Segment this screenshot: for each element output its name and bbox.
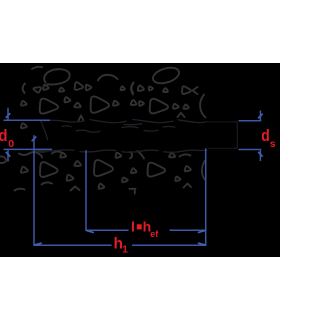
h1 dimension line left segment xyxy=(34,244,112,246)
aggregate smile dash xyxy=(42,182,53,184)
hole debris mark 3 xyxy=(36,151,46,153)
aggregate paren mid xyxy=(131,83,133,95)
aggregate edge blob xyxy=(1,156,7,163)
ds bottom arrow tick xyxy=(259,152,263,156)
aggregate small blob xyxy=(175,177,180,181)
aggregate face arc lower xyxy=(202,161,205,180)
svg-text:d: d xyxy=(261,127,270,145)
aggregate small pick xyxy=(74,103,80,108)
aggregate paren pair xyxy=(130,151,144,159)
aggregate small blob xyxy=(86,85,92,91)
hole top wall segment 3 xyxy=(124,123,142,126)
hole debris mark 6 xyxy=(163,125,175,128)
h1 tip extension line vertical xyxy=(33,135,35,246)
aggregate small pick xyxy=(169,153,175,157)
aggregate small blob xyxy=(139,101,144,106)
hole debris mark 5 xyxy=(144,129,158,132)
aggregate cup mark xyxy=(52,151,62,153)
aggregate D blob xyxy=(67,175,74,181)
aggregate big pick F xyxy=(147,163,165,177)
aggregate small blob xyxy=(98,184,104,189)
aggregate tiny blob xyxy=(149,87,153,91)
ds top extension line xyxy=(239,120,262,122)
aggregate smile arc xyxy=(98,75,118,81)
d0 bottom extension line xyxy=(4,148,53,150)
rebar end face xyxy=(236,122,238,149)
svg-text:1: 1 xyxy=(122,244,128,255)
ds bottom extension line xyxy=(239,149,262,151)
d0 top arrow shaft xyxy=(7,108,9,120)
aggregate dash top xyxy=(32,67,42,69)
black image area xyxy=(0,63,280,257)
ds bottom arrow shaft xyxy=(259,150,261,161)
aggregate big closed oval xyxy=(151,65,181,86)
aggregate rough marks at tip xyxy=(19,152,42,157)
d0 top extension line xyxy=(4,119,51,121)
h1 left arrow tick xyxy=(34,243,41,245)
hole top wall segment 5 xyxy=(178,120,207,123)
hef dimension line left segment xyxy=(86,229,129,231)
svg-text:0: 0 xyxy=(8,138,14,150)
rebar end corners xyxy=(234,122,238,149)
aggregate dash xyxy=(15,189,25,191)
aggregate small pick xyxy=(163,88,168,92)
svg-text:s: s xyxy=(270,138,276,150)
svg-text:d: d xyxy=(0,127,8,145)
hole tip slant mark xyxy=(42,125,48,140)
aggregate small blob xyxy=(113,101,119,106)
aggregate small pick xyxy=(185,166,191,171)
hole top wall segment 2 xyxy=(90,120,126,123)
aggregate paren xyxy=(131,83,133,93)
aggregate angle mark 2 xyxy=(184,184,192,188)
aggregate tiny blob xyxy=(59,88,64,92)
aggregate angle mark xyxy=(71,187,80,191)
aggregate small blob xyxy=(138,85,144,91)
aggregate face arc upper xyxy=(200,95,205,118)
hole debris mark 4 xyxy=(122,126,138,129)
aggregate small blob xyxy=(43,85,49,90)
aggregate small blob xyxy=(21,167,28,173)
aggregate big pick B xyxy=(91,96,109,112)
svg-text:l: l xyxy=(131,218,135,234)
ds top arrow tick xyxy=(259,114,263,118)
aggregate small pick xyxy=(60,153,66,158)
hef left arrow tick xyxy=(86,230,93,232)
rebar faint outline top edge xyxy=(208,121,237,123)
aggregate big pick E xyxy=(94,160,113,176)
aggregate small blob xyxy=(64,97,70,102)
aggregate big pick D xyxy=(40,162,58,177)
hole bottom wall segment 3 xyxy=(122,150,158,152)
aggregate chevron up 2 xyxy=(178,113,185,117)
surface extension line vertical xyxy=(205,148,207,246)
h1 tip arrow tick xyxy=(32,137,36,141)
aggregate small pick xyxy=(131,100,137,105)
aggregate small pick xyxy=(34,87,41,92)
aggregate chevron up 1 xyxy=(79,116,84,121)
hole top wall segment 4 xyxy=(133,119,173,122)
hole bottom wall segment 4 xyxy=(164,150,207,152)
hef dimension line right segment xyxy=(170,229,206,231)
hole tip small mark xyxy=(41,122,43,124)
hole bottom wall segment 1 xyxy=(38,150,74,151)
aggregate small blob xyxy=(122,178,128,183)
hole debris mark 1 xyxy=(62,126,71,127)
aggregate dash xyxy=(180,154,191,156)
hole debris mark 2 xyxy=(76,130,100,132)
d0 top arrow tick xyxy=(6,114,10,118)
h1 dimension line right segment xyxy=(132,244,206,246)
rebar faint outline bottom edge xyxy=(208,147,237,149)
h1 right arrow tick xyxy=(199,243,206,245)
aggregate D blob xyxy=(75,82,83,90)
aggregate small blob xyxy=(184,104,189,108)
aggregate big pick A xyxy=(40,99,58,114)
drill hole walls (rough) xyxy=(36,119,207,152)
aggregate big pick C xyxy=(150,99,168,114)
hef extension line vertical xyxy=(85,150,87,231)
aggregate small pick xyxy=(74,161,81,166)
hole bottom wall segment 2 xyxy=(80,150,116,152)
d0 bottom arrow tick xyxy=(6,152,10,156)
label equals block xyxy=(137,224,142,229)
aggregate small blob near tip xyxy=(21,123,27,128)
aggregate paren left xyxy=(23,84,25,94)
aggregate D blob xyxy=(182,86,191,94)
aggregate big open oval xyxy=(44,69,69,84)
aggregate tiny blob xyxy=(21,101,27,106)
aggregate chevron right xyxy=(193,87,198,94)
aggregate small blob xyxy=(116,153,122,158)
aggregate small blob xyxy=(121,86,125,90)
hef right arrow tick xyxy=(199,230,206,232)
d0 bottom arrow shaft xyxy=(7,150,9,161)
aggregate dash tick xyxy=(130,189,136,194)
hole top wall segment 1 xyxy=(45,120,84,122)
svg-text:ef: ef xyxy=(150,229,159,239)
ds top arrow shaft xyxy=(259,110,261,120)
aggregate small blob xyxy=(173,104,179,109)
aggregate small blob xyxy=(131,168,137,173)
